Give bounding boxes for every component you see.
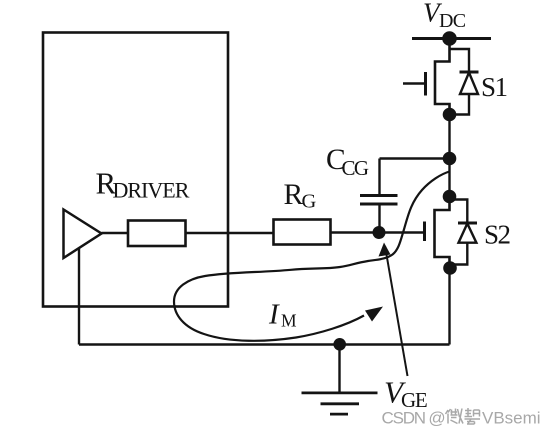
svg-text:VBsemi: VBsemi: [482, 409, 541, 428]
wire S1 source to midpoint: [448, 115, 450, 197]
transistor S1 gate: [403, 72, 426, 96]
watermark glyph wei: [446, 409, 464, 424]
wire R_G to gate of S2: [331, 231, 425, 233]
label C_CG: [326, 144, 369, 180]
wire buffer output to R_DRIVER: [102, 232, 129, 234]
svg-text:DRIVER: DRIVER: [113, 178, 190, 203]
wire C_CG to midpoint node: [380, 157, 450, 159]
diode of S2: [450, 200, 478, 265]
transistor S2 gate: [423, 222, 426, 242]
node V_DC (junction dot): [442, 31, 457, 46]
svg-text:S2: S2: [484, 220, 511, 250]
transistor S2 channel: [435, 197, 450, 269]
node S1 source (junction dot): [443, 108, 457, 122]
diode of S1: [450, 49, 479, 115]
node S2 drain (junction dot): [443, 190, 457, 204]
watermark CSDN: [382, 409, 541, 428]
svg-text:CSDN @: CSDN @: [382, 409, 445, 428]
node ground (junction dot): [333, 338, 346, 351]
svg-text:M: M: [281, 311, 297, 331]
wire V_DC top rail: [412, 37, 491, 40]
label V_DC: [423, 0, 466, 32]
node midpoint (junction dot): [443, 152, 457, 166]
node gate (junction dot): [373, 226, 386, 239]
ground: [302, 345, 378, 415]
svg-text:DC: DC: [439, 10, 466, 32]
wire bottom rail: [79, 343, 450, 345]
svg-text:I: I: [268, 299, 280, 331]
wire I_M measurement loop (curved): [174, 172, 450, 341]
svg-text:S1: S1: [481, 72, 507, 102]
label R_DRIVER: [96, 166, 190, 203]
resistor R_DRIVER: [128, 221, 186, 247]
label S1: [481, 72, 507, 102]
wire S2 source down to bottom rail: [448, 268, 450, 345]
svg-text:CG: CG: [342, 156, 369, 180]
capacitor C_CG: [360, 159, 398, 233]
label S2: [484, 220, 511, 250]
wire R_DRIVER to R_G: [186, 232, 274, 234]
watermark glyph bi: [465, 408, 481, 424]
svg-text:G: G: [302, 191, 317, 213]
label R_G: [284, 179, 317, 213]
op-amp buffer U1: [64, 210, 102, 259]
resistor R_G: [274, 220, 331, 245]
node S2 source (junction dot): [443, 261, 457, 275]
wire left vertical from buffer: [78, 248, 80, 345]
label V_GE: [384, 375, 427, 413]
label I_M: [268, 299, 297, 331]
svg-text:R: R: [284, 179, 304, 211]
driver IC box: [43, 33, 228, 307]
transistor S1 channel: [435, 39, 450, 115]
wire V_GE probe line with arrow: [379, 243, 408, 377]
